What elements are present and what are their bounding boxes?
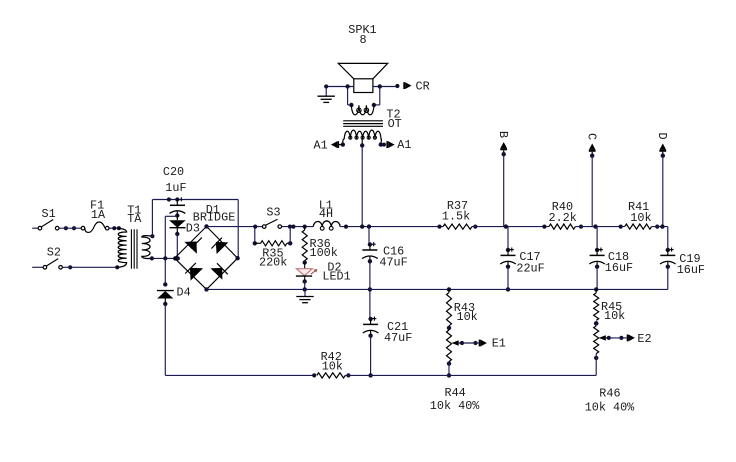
wire C20 jog to left column <box>165 216 177 258</box>
label R42 value 10k <box>322 359 343 373</box>
label R42 <box>321 350 342 364</box>
svg-text:E1: E1 <box>492 337 506 351</box>
node T1 secondary bottom dot <box>150 256 154 260</box>
connector CR arrow <box>403 82 411 89</box>
bridge D1 diode bottom-right <box>210 263 227 280</box>
wire bus to C18 <box>596 227 598 250</box>
label R44 value <box>430 399 480 413</box>
svg-text:C: C <box>585 133 599 140</box>
label C19 <box>679 252 700 266</box>
svg-text:47uF: 47uF <box>384 331 412 345</box>
connector E2 arrow <box>627 335 635 342</box>
label D1 <box>206 203 220 217</box>
label T2 <box>386 108 400 122</box>
LED D2 <box>296 263 318 282</box>
inductor L1 <box>313 221 340 230</box>
capacitor C20 polarity tick <box>180 197 182 201</box>
svg-text:2.2k: 2.2k <box>549 211 577 225</box>
node B bus dot <box>504 224 508 228</box>
resistor R37 <box>443 224 472 229</box>
svg-text:22uF: 22uF <box>516 261 544 275</box>
wire R37 to R40 <box>472 226 549 228</box>
node T2 primary right dot <box>372 103 376 107</box>
wire C18 to mid bus <box>596 267 598 290</box>
diode D4 <box>157 291 174 304</box>
wire C17 to mid bus <box>507 267 509 290</box>
label R40 <box>552 200 573 214</box>
label R40 value 2.2k <box>549 211 577 225</box>
node R35 left dot <box>253 241 257 245</box>
wire bottom bus right <box>345 374 596 376</box>
node D4 top dot <box>163 282 167 286</box>
switch S1 <box>38 220 59 231</box>
label D2 <box>327 261 341 275</box>
label S2 <box>47 245 61 259</box>
label C rotated <box>585 133 599 140</box>
node R44 bottom bus dot <box>447 373 451 377</box>
wire bus to C19 <box>667 227 669 249</box>
label B rotated <box>496 131 510 138</box>
resistor R40 <box>549 224 576 229</box>
svg-text:D: D <box>655 132 669 139</box>
wire T1 secondary top to rail <box>151 200 153 237</box>
svg-text:47uF: 47uF <box>379 256 407 270</box>
wire T2 tap to main bus <box>361 145 363 226</box>
node R36 top dot <box>303 225 307 229</box>
label R35 <box>262 247 283 261</box>
wire mid bus to C21 <box>369 289 372 319</box>
wire S1 to F1 <box>59 227 81 229</box>
node T2 secondary right dots <box>379 142 386 146</box>
wire R44 to bottom bus <box>448 362 450 376</box>
node speaker right dot <box>378 84 382 88</box>
node R46 bottom dot <box>594 356 598 360</box>
bridge D1 diode top-left <box>184 238 202 254</box>
wire C20 rail <box>152 199 238 201</box>
wire bus to C17 <box>507 227 509 250</box>
label R44 <box>445 386 466 400</box>
svg-text:10k 40%: 10k 40% <box>585 400 635 414</box>
svg-text:S3: S3 <box>266 205 280 219</box>
svg-text:E2: E2 <box>637 332 651 346</box>
wire bus to C16 <box>368 227 371 245</box>
wire C19 to mid bus corner <box>667 267 669 290</box>
label A1 left <box>314 138 328 152</box>
node bridge top dot <box>204 224 208 228</box>
label R36 value 100k <box>310 246 338 260</box>
label C16 <box>383 245 404 259</box>
label F1 <box>90 199 104 213</box>
svg-text:R44: R44 <box>445 386 466 400</box>
label C17 <box>519 250 540 264</box>
svg-text:OT: OT <box>388 117 402 131</box>
wire B to bus <box>503 154 505 226</box>
node rail dots at C20 <box>167 197 180 201</box>
wire S3 to L1 <box>282 226 314 228</box>
node T1 primary bottom dot <box>115 265 119 269</box>
wire speaker right down to T2 <box>374 87 380 105</box>
wire wiper to E1 <box>462 342 479 344</box>
label D rotated <box>655 132 669 139</box>
wire D2 to mid bus <box>304 282 306 290</box>
node speaker left dot <box>345 84 349 88</box>
wire left column upper <box>164 258 166 284</box>
node S3 right dots <box>288 225 296 229</box>
label R35 value 220k <box>259 256 287 270</box>
capacitor C21 <box>363 317 379 338</box>
label C18 value 16uF <box>605 261 633 275</box>
node R41 right dot <box>655 225 659 229</box>
speaker SPK1 body <box>354 79 373 93</box>
node T1 primary top dots <box>112 226 121 230</box>
label CR <box>416 79 430 93</box>
wire mid bus <box>207 288 668 290</box>
wire speaker left down to T2 <box>348 87 352 105</box>
node R37 left dot <box>437 225 441 229</box>
bridge D1 diode bottom-left <box>185 263 203 281</box>
wire D to bus <box>662 156 664 227</box>
label S1 <box>42 207 56 221</box>
wire speaker right <box>373 86 398 88</box>
node S1 out dots <box>64 226 76 230</box>
label T1 <box>127 204 141 218</box>
resistor R42 <box>317 373 346 378</box>
transformer T2 secondary coil <box>343 130 382 144</box>
node D3 bottom dot <box>175 232 179 236</box>
node C16 bus dot <box>367 224 371 228</box>
label R41 value 10k <box>630 211 651 225</box>
label E2 <box>637 332 651 346</box>
label D3 <box>186 222 200 236</box>
capacitor C17 <box>500 248 516 269</box>
svg-text:B: B <box>496 131 510 138</box>
label D4 <box>177 286 191 300</box>
label D2 type LED1 <box>322 269 350 283</box>
node LED ground dot <box>303 287 307 291</box>
node R44 wiper dots <box>460 341 478 345</box>
svg-text:10k: 10k <box>630 211 651 225</box>
label R37 value 1.5k <box>442 209 470 223</box>
svg-text:16uF: 16uF <box>605 261 633 275</box>
label R41 <box>628 200 649 214</box>
bridge D1 diode top-right <box>211 238 228 254</box>
svg-text:S1: S1 <box>42 207 56 221</box>
label C17 value 22uF <box>516 261 544 275</box>
label R45 value 10k <box>604 309 625 323</box>
svg-text:10k 40%: 10k 40% <box>430 399 480 413</box>
capacitor C19 <box>660 248 676 269</box>
switch S3 <box>262 219 281 228</box>
resistor R43 <box>447 289 452 326</box>
pot R46 wiper arrow <box>599 335 609 340</box>
node T2 primary left dot <box>349 103 353 107</box>
resistor R41 <box>625 224 652 229</box>
svg-text:100k: 100k <box>310 246 338 260</box>
resistor R35 <box>255 241 290 246</box>
potentiometer R46 <box>594 326 599 354</box>
node L1 right dot <box>344 225 348 229</box>
wire R40 to R41 <box>575 226 624 228</box>
wire rail right leg to bridge <box>237 200 239 259</box>
node R40 right dot <box>579 225 583 229</box>
svg-text:A1: A1 <box>314 138 328 152</box>
label S3 <box>266 205 280 219</box>
node T2 tap bus dot <box>360 224 364 228</box>
wire D3 to AC line <box>176 234 178 258</box>
svg-text:1A: 1A <box>91 208 106 222</box>
label R45 <box>601 300 622 314</box>
node R44 bottom dot <box>447 361 451 365</box>
node R42 right dot <box>346 373 350 377</box>
node bridge bottom dot <box>204 287 208 291</box>
ground at speaker <box>318 87 335 103</box>
label C21 value 47uF <box>384 331 412 345</box>
label D1 type BRIDGE <box>193 211 235 225</box>
pot R44 wiper arrow <box>452 340 463 345</box>
wire main bus bridge to S3 <box>207 226 263 228</box>
transformer T1 primary coil <box>117 228 126 267</box>
node R37 right dot <box>473 225 477 229</box>
svg-text:R46: R46 <box>599 387 620 401</box>
svg-text:1uF: 1uF <box>165 181 186 195</box>
svg-text:TA: TA <box>127 212 142 226</box>
svg-text:BRIDGE: BRIDGE <box>193 211 235 225</box>
wire F1 to T1 <box>109 227 117 229</box>
transformer T2 core <box>343 121 383 127</box>
node D2 top dot <box>303 260 307 264</box>
wire AC line <box>152 257 175 259</box>
wire R35 left leg <box>254 227 256 244</box>
resistor R36 <box>302 227 307 263</box>
svg-text:220k: 220k <box>259 256 287 270</box>
svg-text:LED1: LED1 <box>322 269 350 283</box>
resistor R45 <box>594 289 599 320</box>
label C18 <box>608 250 629 264</box>
diode D3 <box>169 216 186 235</box>
label R43 <box>454 301 475 315</box>
node bridge right dot <box>235 256 239 260</box>
potentiometer R44 <box>447 330 452 362</box>
label R46 value <box>585 400 635 414</box>
label R43 value 10k <box>457 310 478 324</box>
node D2 bottom dot <box>303 279 307 283</box>
svg-text:8: 8 <box>360 33 367 47</box>
wire R46 to bottom bus <box>595 354 597 376</box>
label E1 <box>492 337 506 351</box>
speaker SPK1 horn <box>338 63 387 78</box>
node T1 secondary top dot <box>150 234 154 238</box>
node C bus dot <box>593 224 597 228</box>
node R46 wiper dots <box>607 336 624 340</box>
node AC line dots <box>163 256 180 260</box>
wire speaker left to ground <box>326 86 354 88</box>
label F1 value 1A <box>91 208 106 222</box>
svg-text:S2: S2 <box>47 245 61 259</box>
capacitor C18 <box>589 248 605 269</box>
wire S2 left stub <box>32 266 42 268</box>
connector A1 right arrow <box>386 141 394 148</box>
node D4 bottom dot <box>163 302 167 306</box>
connector A1 left arrow <box>331 141 343 148</box>
svg-text:CR: CR <box>416 79 430 93</box>
transformer T1 secondary coil <box>142 236 153 259</box>
node S2 out dot <box>68 265 72 269</box>
connector D arrow <box>659 144 666 158</box>
node R35 bus dot <box>253 225 257 229</box>
node R43-R44 dot <box>447 326 451 330</box>
wire wiper to E2 <box>609 337 627 339</box>
wire C21 to bottom bus <box>370 336 372 376</box>
node R41 left dot <box>619 225 623 229</box>
wire bottom bus left <box>165 374 314 376</box>
svg-text:10k: 10k <box>322 359 343 373</box>
node C21 bottom dot <box>368 373 372 377</box>
node ground dot <box>324 84 328 88</box>
wire C16 to mid bus <box>369 261 371 289</box>
node CR dot <box>395 84 399 88</box>
node D bus dot <box>660 224 664 228</box>
transformer T2 primary coil <box>351 105 374 115</box>
capacitor C16 <box>362 242 378 263</box>
label C20 <box>163 165 184 179</box>
ground below LED <box>296 289 313 302</box>
svg-text:16uF: 16uF <box>677 263 705 277</box>
label SPK1 <box>348 23 376 37</box>
svg-text:10k: 10k <box>604 309 625 323</box>
node C20 bottom dot <box>175 213 179 217</box>
node C17 mid bus dot <box>506 287 510 291</box>
svg-text:10k: 10k <box>457 310 478 324</box>
fuse F1 <box>81 222 109 232</box>
connector E1 arrow <box>479 340 487 347</box>
label R36 <box>310 237 331 251</box>
svg-text:A1: A1 <box>397 138 411 152</box>
node R45 top dot <box>594 287 598 291</box>
wire R41 to D column <box>652 226 668 228</box>
wire left column lower <box>164 304 166 376</box>
wire L1 to R37 <box>340 226 443 228</box>
node R40 left dot <box>542 225 546 229</box>
capacitor C20 <box>170 200 186 216</box>
transformer T1 core <box>131 229 137 268</box>
label SPK1 value 8 <box>360 33 367 47</box>
label C21 <box>387 320 408 334</box>
label R37 <box>447 199 468 213</box>
svg-text:D4: D4 <box>177 286 191 300</box>
node C16 mid bus dot <box>368 287 372 291</box>
label A1 right <box>397 138 411 152</box>
label L1 <box>319 199 333 213</box>
node R42 left dot <box>312 373 316 377</box>
node R43 top dot <box>447 287 451 291</box>
wire R35 right leg <box>289 227 291 244</box>
label T2 type OT <box>388 117 402 131</box>
wire S2 to T1 <box>62 266 117 268</box>
label C16 value 47uF <box>379 256 407 270</box>
svg-text:4H: 4H <box>319 207 333 221</box>
connector B arrow <box>500 142 507 156</box>
wire T2 center tap stem <box>361 139 363 146</box>
label L1 value 4H <box>319 207 333 221</box>
wire C to bus <box>591 156 593 227</box>
label C19 value 16uF <box>677 263 705 277</box>
wire S1 left stub <box>32 227 38 229</box>
node T2 secondary left dot <box>341 142 345 146</box>
svg-text:C20: C20 <box>163 165 184 179</box>
node T2 center tap dot <box>360 143 364 147</box>
label R46 <box>599 387 620 401</box>
bridge D1 diamond edges <box>175 226 238 289</box>
node R45-R46 dot <box>594 321 599 326</box>
switch S2 <box>43 259 62 270</box>
svg-text:1.5k: 1.5k <box>442 209 470 223</box>
label C20 value 1uF <box>165 181 186 195</box>
node R35 right dot <box>288 241 292 245</box>
connector C arrow <box>589 144 596 158</box>
label T1 type TA <box>127 212 142 226</box>
